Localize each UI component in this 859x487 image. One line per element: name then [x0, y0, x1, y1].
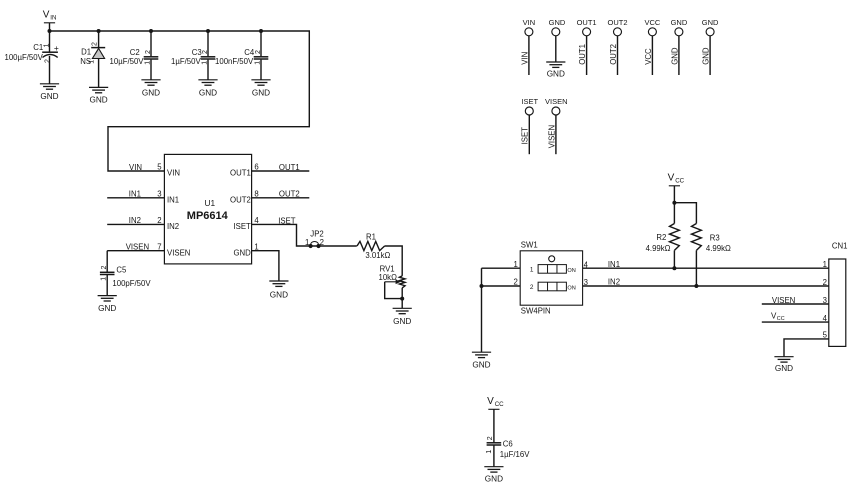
svg-text:1: 1 — [101, 277, 108, 281]
svg-text:OUT2: OUT2 — [607, 18, 627, 27]
svg-text:C3: C3 — [192, 48, 202, 57]
svg-text:CC: CC — [675, 178, 684, 185]
svg-text:ISET: ISET — [233, 222, 251, 231]
svg-text:C4: C4 — [244, 48, 255, 57]
svg-text:+: + — [54, 43, 59, 53]
svg-text:2: 2 — [202, 50, 209, 54]
svg-text:1: 1 — [201, 61, 208, 65]
svg-text:4: 4 — [584, 260, 589, 269]
svg-text:C2: C2 — [130, 48, 140, 57]
svg-text:10kΩ: 10kΩ — [379, 273, 398, 282]
svg-text:GND: GND — [40, 92, 58, 101]
svg-text:4.99kΩ: 4.99kΩ — [706, 244, 731, 253]
svg-text:1: 1 — [89, 60, 96, 64]
svg-text:R2: R2 — [656, 233, 666, 242]
svg-text:JP2: JP2 — [310, 230, 323, 239]
svg-text:100nF/50V: 100nF/50V — [215, 57, 254, 66]
svg-text:IN2: IN2 — [167, 222, 179, 231]
svg-text:4.99kΩ: 4.99kΩ — [646, 244, 671, 253]
svg-text:1: 1 — [486, 450, 493, 454]
svg-text:1µF/16V: 1µF/16V — [500, 450, 530, 459]
svg-text:OUT1: OUT1 — [578, 44, 587, 65]
svg-text:2: 2 — [514, 278, 518, 287]
svg-text:GND: GND — [233, 248, 251, 257]
svg-text:R1: R1 — [366, 233, 376, 242]
svg-text:CN1: CN1 — [832, 241, 848, 250]
svg-text:VIN: VIN — [523, 18, 536, 27]
svg-text:3: 3 — [157, 189, 161, 198]
svg-text:GND: GND — [485, 475, 503, 484]
svg-text:1: 1 — [43, 43, 50, 47]
svg-text:2: 2 — [91, 42, 98, 46]
svg-text:VISEN: VISEN — [545, 97, 568, 106]
svg-text:GND: GND — [98, 304, 116, 313]
svg-text:C6: C6 — [503, 439, 513, 448]
svg-text:GND: GND — [670, 47, 679, 65]
svg-text:6: 6 — [254, 163, 258, 172]
svg-text:VCC: VCC — [644, 18, 660, 27]
svg-text:GND: GND — [671, 18, 688, 27]
svg-text:2: 2 — [44, 59, 51, 63]
svg-text:GND: GND — [89, 96, 107, 105]
svg-text:GND: GND — [393, 317, 411, 326]
svg-text:IN1: IN1 — [129, 190, 141, 199]
svg-text:8: 8 — [254, 189, 258, 198]
svg-text:IN2: IN2 — [129, 216, 141, 225]
svg-text:ON: ON — [567, 268, 575, 274]
svg-text:3: 3 — [584, 278, 588, 287]
svg-text:100pF/50V: 100pF/50V — [112, 279, 151, 288]
svg-text:2: 2 — [320, 238, 324, 247]
svg-text:R3: R3 — [710, 233, 720, 242]
svg-text:GND: GND — [252, 88, 270, 97]
svg-text:GND: GND — [702, 18, 719, 27]
svg-text:ISET: ISET — [278, 216, 296, 225]
svg-text:OUT1: OUT1 — [230, 169, 251, 178]
svg-text:IN1: IN1 — [608, 260, 620, 269]
svg-text:GND: GND — [142, 88, 160, 97]
svg-text:GND: GND — [549, 18, 566, 27]
svg-text:ISET: ISET — [521, 97, 538, 106]
svg-text:3.01kΩ: 3.01kΩ — [365, 251, 390, 260]
svg-text:VIN: VIN — [520, 52, 529, 65]
svg-text:VIN: VIN — [129, 163, 142, 172]
svg-text:CC: CC — [495, 401, 504, 408]
svg-text:V: V — [668, 173, 675, 184]
svg-text:ON: ON — [567, 285, 575, 291]
svg-text:1: 1 — [254, 61, 261, 65]
svg-text:V: V — [487, 396, 494, 407]
svg-text:4: 4 — [254, 216, 259, 225]
svg-text:GND: GND — [270, 290, 288, 299]
svg-text:2: 2 — [530, 284, 534, 291]
svg-text:IN: IN — [50, 15, 56, 22]
svg-text:GND: GND — [472, 361, 490, 370]
svg-text:1: 1 — [514, 260, 518, 269]
svg-text:2: 2 — [101, 266, 108, 270]
svg-text:2: 2 — [145, 50, 152, 54]
svg-text:OUT1: OUT1 — [279, 163, 300, 172]
svg-text:VISEN: VISEN — [547, 125, 556, 148]
svg-text:100µF/50V: 100µF/50V — [5, 53, 44, 62]
svg-text:VISEN: VISEN — [772, 296, 795, 305]
svg-text:CC: CC — [777, 316, 785, 322]
svg-text:SW1: SW1 — [521, 240, 538, 249]
svg-text:1: 1 — [823, 260, 827, 269]
svg-text:VISEN: VISEN — [167, 248, 190, 257]
svg-text:1: 1 — [530, 267, 534, 274]
svg-text:2: 2 — [157, 216, 161, 225]
svg-text:5: 5 — [157, 163, 162, 172]
svg-text:U1: U1 — [204, 198, 215, 208]
svg-text:2: 2 — [823, 278, 827, 287]
svg-text:VISEN: VISEN — [126, 243, 149, 252]
svg-text:1: 1 — [305, 238, 309, 247]
svg-text:GND: GND — [702, 47, 711, 65]
svg-text:OUT2: OUT2 — [230, 196, 251, 205]
svg-text:10µF/50V: 10µF/50V — [110, 57, 145, 66]
svg-text:IN1: IN1 — [167, 196, 179, 205]
svg-text:C5: C5 — [116, 266, 127, 275]
svg-text:1: 1 — [254, 242, 258, 251]
svg-text:VIN: VIN — [167, 169, 180, 178]
svg-text:OUT2: OUT2 — [609, 44, 618, 65]
svg-text:GND: GND — [199, 88, 217, 97]
svg-text:D1: D1 — [81, 48, 91, 57]
svg-text:ISET: ISET — [521, 127, 530, 145]
svg-text:1: 1 — [144, 61, 151, 65]
svg-text:1µF/50V: 1µF/50V — [171, 57, 201, 66]
svg-text:C1: C1 — [33, 43, 43, 52]
svg-text:SW4PIN: SW4PIN — [521, 306, 551, 315]
svg-text:7: 7 — [157, 242, 161, 251]
svg-text:GND: GND — [775, 364, 793, 373]
svg-text:V: V — [43, 10, 50, 21]
svg-text:IN2: IN2 — [608, 278, 620, 287]
svg-text:OUT2: OUT2 — [279, 190, 300, 199]
svg-text:MP6614: MP6614 — [187, 210, 229, 222]
svg-text:2: 2 — [255, 50, 262, 54]
svg-text:VCC: VCC — [644, 48, 653, 65]
svg-text:2: 2 — [487, 436, 494, 440]
svg-text:OUT1: OUT1 — [577, 18, 597, 27]
svg-text:GND: GND — [547, 70, 565, 79]
